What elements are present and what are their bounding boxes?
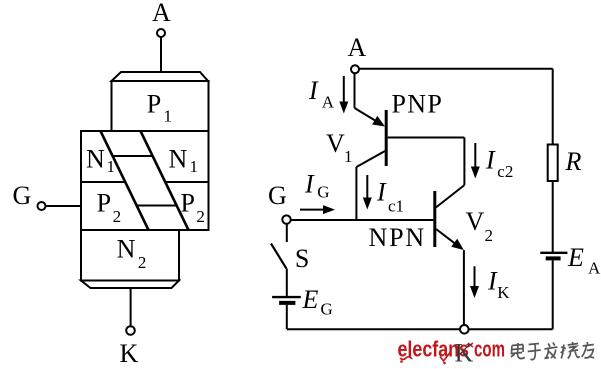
svg-text:K: K — [120, 339, 139, 368]
svg-text:com: com — [474, 337, 505, 362]
svg-text:N: N — [117, 235, 136, 264]
svg-text:V: V — [466, 207, 485, 236]
svg-text:1: 1 — [107, 157, 116, 176]
svg-text:V: V — [326, 129, 345, 158]
svg-text:c2: c2 — [497, 162, 513, 181]
svg-text:E: E — [567, 243, 584, 272]
svg-text:1: 1 — [344, 147, 353, 166]
svg-text:G: G — [13, 181, 32, 210]
svg-text:I: I — [304, 170, 315, 199]
svg-text:K: K — [497, 283, 510, 302]
svg-text:A: A — [348, 33, 367, 62]
svg-text:1: 1 — [164, 107, 173, 126]
svg-text:A: A — [588, 259, 601, 278]
svg-text:N: N — [169, 145, 188, 174]
svg-text:I: I — [308, 76, 319, 105]
svg-text:I: I — [376, 178, 387, 207]
svg-text:2: 2 — [138, 253, 147, 272]
svg-text:K: K — [455, 339, 474, 368]
svg-text:P: P — [97, 189, 111, 218]
svg-text:NPN: NPN — [369, 223, 426, 252]
svg-text:2: 2 — [485, 226, 494, 245]
svg-text:P: P — [147, 89, 161, 118]
svg-text:G: G — [268, 181, 287, 210]
svg-text:PNP: PNP — [392, 90, 444, 119]
svg-text:S: S — [295, 244, 309, 273]
svg-text:I: I — [485, 146, 496, 175]
svg-text:G: G — [321, 299, 333, 318]
svg-text:2: 2 — [196, 207, 205, 226]
svg-text:N: N — [86, 145, 105, 174]
svg-text:E: E — [302, 285, 319, 314]
svg-text:R: R — [565, 147, 582, 176]
svg-text:2: 2 — [113, 207, 122, 226]
svg-text:G: G — [317, 183, 329, 202]
svg-text:P: P — [181, 189, 195, 218]
svg-text:A: A — [152, 0, 171, 27]
svg-text:c1: c1 — [388, 196, 404, 215]
svg-text:A: A — [322, 93, 335, 112]
svg-text:1: 1 — [190, 157, 199, 176]
